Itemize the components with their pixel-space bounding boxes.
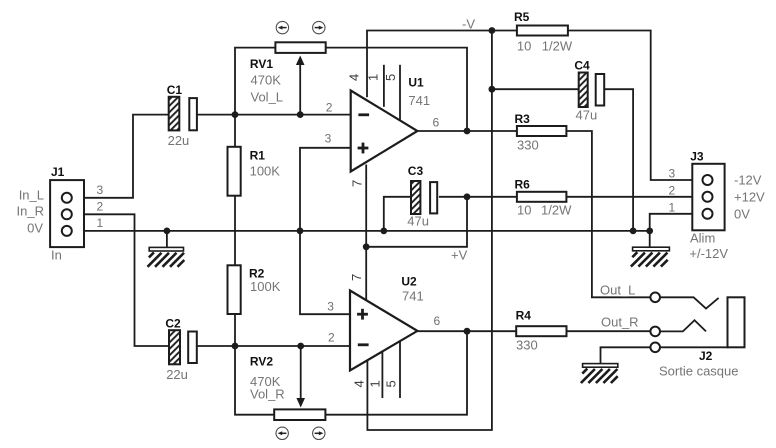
junction dot C3 left on 0V rail <box>380 228 387 235</box>
wire C2 to U2 pin 2 <box>197 345 350 347</box>
wire C3 left lead to 0V rail <box>384 197 411 231</box>
svg-text:Sortie casque: Sortie casque <box>659 364 739 379</box>
svg-text:47u: 47u <box>407 214 429 229</box>
resistor R5 <box>514 10 573 54</box>
svg-text:Alim: Alim <box>690 231 715 246</box>
capacitor C4 <box>574 58 604 122</box>
wire R1 to R2 link <box>234 196 236 266</box>
wire U1 pin 1 <box>383 65 385 107</box>
junction dot pin3 riser on 0V rail <box>297 228 304 235</box>
svg-text:RV2: RV2 <box>250 355 273 369</box>
wire U2 pin 1 <box>381 352 383 398</box>
wire 0V rail <box>70 230 650 232</box>
wire J2 ring contact Out_R <box>660 320 706 331</box>
ground symbol near J2 <box>581 364 618 383</box>
op-amp U2 <box>350 275 424 371</box>
svg-text:4: 4 <box>352 380 367 387</box>
svg-text:1/2W: 1/2W <box>541 203 572 218</box>
svg-text:2: 2 <box>97 199 104 213</box>
svg-text:Vol_R: Vol_R <box>250 387 285 402</box>
svg-text:3: 3 <box>97 183 104 197</box>
junction dot U1 feedback <box>464 128 471 135</box>
svg-text:330: 330 <box>517 138 539 153</box>
svg-text:U1: U1 <box>408 76 424 90</box>
resistor R2 <box>228 265 281 314</box>
svg-text:3: 3 <box>325 131 332 145</box>
wire In_L (J1 pin3 to C1) <box>70 115 169 198</box>
svg-text:R4: R4 <box>516 309 532 323</box>
svg-text:J3: J3 <box>690 150 704 164</box>
op-amp U1 <box>351 76 430 172</box>
wire R3 to Out_L <box>566 131 650 297</box>
wire In_R (J1 pin2 to C2) <box>70 214 169 346</box>
svg-text:3: 3 <box>669 167 676 181</box>
wire C1 to U1 pin 2 <box>197 114 351 116</box>
svg-text:In_R: In_R <box>17 204 44 219</box>
svg-text:2: 2 <box>326 101 333 115</box>
svg-text:2: 2 <box>669 183 676 197</box>
svg-text:1: 1 <box>366 74 381 81</box>
wire J3 pin 1 to 0V rail <box>650 214 703 231</box>
svg-text:In: In <box>51 248 62 263</box>
wire C4 right lead to 0V rail <box>604 89 633 231</box>
svg-text:J2: J2 <box>699 349 713 363</box>
junction dot ground J1 on 0V rail <box>164 228 171 235</box>
ground symbol near J1 <box>148 247 185 266</box>
resistor R4 <box>516 309 567 353</box>
svg-text:6: 6 <box>433 116 440 130</box>
junction dot C4 right on 0V rail <box>630 228 637 235</box>
svg-text:Out_R: Out_R <box>601 315 639 330</box>
svg-text:1: 1 <box>367 380 382 387</box>
wire U1 pin 5 <box>399 65 401 120</box>
svg-text:-12V: -12V <box>734 173 762 188</box>
arrowhead RV2 wiper <box>296 398 305 408</box>
svg-text:-V: -V <box>462 17 475 32</box>
arrowhead RV1 wiper <box>296 56 305 66</box>
RV1 polarity marks <box>276 21 325 33</box>
wire R1 top lead <box>234 115 236 147</box>
svg-text:6: 6 <box>434 314 441 328</box>
svg-text:J1: J1 <box>51 165 65 179</box>
wire U1 output pin 6 <box>417 130 517 132</box>
svg-text:5: 5 <box>383 74 398 81</box>
junction dot node B (C2/R2/RV2) <box>232 343 239 350</box>
junction dot RV2 wiper / U2 pin2 <box>297 343 304 350</box>
svg-text:C1: C1 <box>167 83 183 97</box>
svg-text:3: 3 <box>327 300 334 314</box>
wire C4 left lead <box>492 88 579 90</box>
svg-text:+V: +V <box>451 248 468 263</box>
svg-text:100K: 100K <box>250 164 281 179</box>
svg-text:C3: C3 <box>408 164 424 178</box>
wire R2 bottom lead <box>234 314 236 346</box>
svg-text:7: 7 <box>349 180 364 187</box>
wire ground stub near J3 <box>649 231 651 248</box>
connector J1 <box>50 165 84 263</box>
svg-text:0V: 0V <box>734 207 750 222</box>
wire U2 pin 5 <box>399 341 401 398</box>
svg-text:RV1: RV1 <box>250 57 273 71</box>
jack J2 connection circle Out_R <box>650 327 660 337</box>
svg-text:7: 7 <box>349 274 364 281</box>
wire RV2 right terminal feedback to U2 output <box>325 331 467 415</box>
svg-text:741: 741 <box>408 93 430 108</box>
svg-text:330: 330 <box>516 338 538 353</box>
svg-text:47u: 47u <box>576 108 598 123</box>
resistor R3 <box>515 112 567 153</box>
svg-text:1/2W: 1/2W <box>542 39 573 54</box>
svg-text:22u: 22u <box>166 367 188 382</box>
svg-text:Out_L: Out_L <box>600 283 635 298</box>
svg-text:In_L: In_L <box>19 188 44 203</box>
wire RV1 right terminal feedback to U1 output <box>326 48 467 131</box>
svg-text:Vol_L: Vol_L <box>251 90 284 105</box>
svg-text:1: 1 <box>97 216 104 230</box>
svg-text:741: 741 <box>402 289 424 304</box>
wire C3 right lead to R6 <box>439 196 517 198</box>
wire U1 pin 7 to U2 pin 7 <box>365 165 367 300</box>
wire ground stub near J1 <box>166 231 168 248</box>
svg-text:10: 10 <box>517 39 531 54</box>
jack J2 connection circle sleeve <box>650 343 660 353</box>
junction dot +V / C3 / R6 <box>464 193 471 200</box>
connector J3 <box>689 150 728 262</box>
svg-text:2: 2 <box>328 331 335 345</box>
svg-text:100K: 100K <box>250 279 281 294</box>
wire J2 tip contact Out_L <box>660 297 719 308</box>
junction dot RV1 wiper / U1 pin2 <box>297 111 304 118</box>
capacitor C1 <box>167 83 197 148</box>
wire +V rail <box>366 197 467 247</box>
wire -V vertical and bottom rail to U2 pin 4 <box>367 31 492 431</box>
svg-text:R1: R1 <box>250 149 266 163</box>
wire R6 to J3 pin 2 <box>566 196 702 198</box>
junction dot -V rail <box>489 27 496 34</box>
resistor R1 <box>228 147 281 196</box>
junction dot node A (C1/RV1/R1) <box>232 111 239 118</box>
junction dot C4 left <box>489 86 496 93</box>
wire RV1 wiper <box>299 62 301 115</box>
jack J2 connection circle Out_L <box>650 293 660 303</box>
svg-text:C4: C4 <box>574 58 590 72</box>
svg-text:4: 4 <box>347 74 362 81</box>
svg-text:U2: U2 <box>401 275 417 289</box>
wire U1 pin 4 to -V rail <box>367 31 517 98</box>
junction dot pin7 +V rail <box>363 243 370 250</box>
svg-text:0V: 0V <box>27 220 43 235</box>
wire RV1 left terminal to node A <box>235 48 275 115</box>
svg-text:22u: 22u <box>168 133 190 148</box>
potentiometer RV2 <box>250 355 326 421</box>
wire -V rail to J3 pin 3 <box>568 31 703 181</box>
capacitor C2 <box>165 317 196 383</box>
wire RV2 left terminal <box>235 346 274 415</box>
svg-text:5: 5 <box>383 380 398 387</box>
wire RV2 wiper <box>300 346 302 400</box>
svg-text:C2: C2 <box>165 317 181 331</box>
capacitor C3 <box>407 164 437 229</box>
wire U2 output pin 6 <box>417 330 516 332</box>
jack J2 body <box>659 297 745 378</box>
svg-text:R5: R5 <box>514 10 530 24</box>
svg-text:+12V: +12V <box>734 190 765 205</box>
RV2 polarity marks <box>276 427 325 439</box>
wire J2 sleeve to jack body <box>660 346 729 348</box>
svg-text:R3: R3 <box>515 112 531 126</box>
junction dot U2 feedback <box>464 328 471 335</box>
svg-text:1: 1 <box>669 200 676 214</box>
potentiometer RV1 <box>250 42 326 104</box>
ground symbol near J3 <box>631 247 669 266</box>
svg-text:R6: R6 <box>515 178 531 192</box>
wire J2 sleeve to ground <box>601 347 651 364</box>
wire R4 to Out_R <box>567 330 651 332</box>
svg-text:10: 10 <box>517 203 531 218</box>
junction dot J3 pin1 / ground on 0V rail <box>646 228 653 235</box>
wire U1 pin3 riser to U2 pin3 <box>300 148 351 314</box>
resistor R6 <box>515 178 573 218</box>
svg-text:470K: 470K <box>251 73 282 88</box>
svg-text:+/-12V: +/-12V <box>689 246 728 261</box>
